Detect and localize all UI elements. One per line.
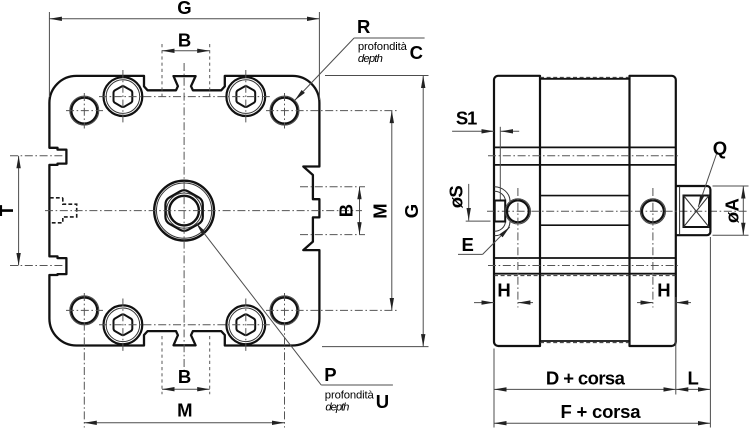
sensor slot bottom lines [494,257,676,259]
threaded hole R bottom-left [71,298,97,324]
boss profile lines [540,195,630,197]
svg-text:øA: øA [722,198,743,223]
centerline hole BL horizontal [66,309,103,311]
dimension S1 [499,127,501,200]
screw hole top-left (hex socket) [104,77,143,116]
rod boss inner line [679,187,681,235]
centerline hole TL horizontal [66,110,103,112]
main centerline right view [487,210,749,212]
svg-text:H: H [497,280,510,301]
svg-text:depth: depth [358,53,383,65]
threaded hole R bottom-right [272,298,298,324]
centerline hole BR horizontal extends to M dim [266,309,397,311]
dimension H right [637,302,653,304]
svg-text:øS: øS [445,185,466,208]
dimension oS leader [466,220,491,222]
left end cap [494,76,540,346]
hidden dovetail slot left edge (dashed) [50,198,77,223]
svg-text:depth: depth [325,402,349,414]
centerline screw BR vertical [245,299,247,352]
svg-text:M: M [177,400,192,421]
rod hex socket [165,190,202,230]
port fillet arcs left [494,187,510,201]
rod thread inner circle [169,196,199,226]
dimension F + corsa [494,422,710,424]
leader Q [698,154,716,207]
centerline hole TR vertical [284,93,286,129]
svg-text:S1: S1 [456,108,478,129]
barrel bottom edge [540,340,630,342]
extension lines bottom dims [493,349,495,428]
svg-text:F + corsa: F + corsa [561,401,642,422]
barrel bottom hidden edge [540,342,630,344]
centerline screw TR vertical [245,70,247,123]
centerline screws bottom horizontal [99,324,270,326]
screw hole top-right (hex socket) [226,77,265,116]
leader R to threaded hole [354,37,425,39]
screw hole bottom-left (hex socket) [104,305,143,344]
svg-text:R: R [357,16,370,37]
leader E [458,253,483,255]
centerline right slot bottom [300,234,365,236]
dimension M right [391,111,393,311]
port circle right [642,200,664,222]
centerline right slot top [300,186,365,188]
dimension L [676,388,711,390]
svg-text:H: H [657,280,670,301]
slot centerline bottom [488,265,680,267]
svg-text:M: M [369,203,390,218]
svg-text:L: L [688,368,699,389]
centre rod bore thin circle [157,183,212,238]
dimension G right [325,75,429,77]
centerline hole TL vertical [83,93,85,129]
svg-text:G: G [401,204,422,218]
centerline screws top horizontal [99,96,270,98]
dimension D + corsa [494,388,676,390]
dimension B right [359,187,361,235]
barrel top hidden edge [540,76,630,78]
svg-text:profondità: profondità [358,41,408,53]
centerline screw TL vertical [122,70,124,123]
centerline horizontal main [45,210,362,212]
sensor slot top lines [494,146,676,148]
svg-text:C: C [410,42,423,63]
svg-text:B: B [178,29,191,50]
svg-text:D + corsa: D + corsa [546,368,626,389]
threaded hole R top-left [71,98,97,124]
svg-text:Q: Q [713,138,727,159]
barrel top edge [540,78,630,80]
port centerline right vertical [652,188,654,308]
dimension T left [18,156,20,266]
dimension oA [713,185,749,187]
svg-text:U: U [376,391,389,412]
svg-text:E: E [462,234,474,255]
centerline left notch top [10,155,64,157]
rod boss Q outline [676,186,710,235]
rod flats square with X [684,196,710,228]
slot centerline top [488,155,680,157]
sensor slot bottom hidden line [494,275,676,277]
centerline screw BL vertical [122,299,124,352]
screw hole bottom-right (hex socket) [226,305,265,344]
port centerline left vertical [517,188,519,308]
right end cap [630,76,676,346]
body outline front view [49,76,319,346]
port circle left [507,200,529,222]
dimension H left [474,302,494,304]
svg-text:B: B [178,366,191,387]
centerline hole TR horizontal extends to M dim [266,110,397,112]
svg-text:G: G [177,0,191,18]
dimension G top [48,12,50,97]
svg-text:profondità: profondità [325,390,375,402]
centerline hole BR vertical extends to M dim [284,293,286,428]
svg-text:T: T [0,204,17,216]
dimension B top [161,44,163,100]
svg-text:P: P [324,364,336,385]
centre rod bore outer circle [154,181,214,241]
threaded hole R top-right [272,98,298,124]
dimension B bottom [161,336,163,394]
centerline vertical main [183,63,185,371]
centerline hole BL vertical extends to M dim [83,293,85,428]
leader P to rod thread [196,223,321,385]
oS plug rectangle [495,201,506,222]
svg-text:B: B [336,204,357,217]
centerline left notch bottom [10,265,64,267]
dimension M bottom [84,422,284,424]
rod thread thin circle [167,193,202,228]
